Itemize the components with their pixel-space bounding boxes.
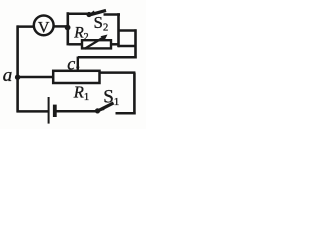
wire right rail lower: [133, 73, 136, 115]
wire left rail: [16, 25, 19, 112]
switch S1 pivot dot: [95, 108, 100, 113]
resistor R2 rheostat body: [82, 40, 111, 48]
wire bottom right horizontal: [116, 112, 136, 115]
rheostat R1 slider stem: [77, 57, 79, 70]
node a dot: [15, 75, 20, 80]
wire box left vertical: [67, 12, 70, 45]
rheostat R1 body: [53, 71, 99, 83]
node junction at box left: [65, 25, 71, 31]
wire R1 exit to right: [100, 71, 136, 74]
svg-text:c: c: [67, 53, 75, 73]
resistor R2 arrowhead: [101, 35, 108, 41]
switch S2 blade: [90, 10, 107, 15]
svg-text:a: a: [3, 65, 13, 86]
wire box exit upper: [118, 29, 137, 32]
svg-text:V: V: [38, 20, 50, 37]
switch S1 blade: [99, 103, 114, 111]
switch S2 blade arrow tail: [87, 11, 95, 16]
battery long plate: [48, 97, 50, 124]
voltmeter V: [34, 16, 54, 36]
wire battery to S1: [57, 110, 97, 113]
wire switch S2 left lead: [67, 13, 87, 16]
wire right rail upper: [134, 29, 137, 58]
wire voltmeter to junction: [54, 25, 69, 28]
wire top-left horizontal: [17, 25, 34, 28]
wire slider c to right rail: [78, 56, 137, 59]
wire R2 right lead: [111, 43, 119, 46]
wire node a to R1: [17, 76, 53, 79]
wire R2 left lead: [69, 43, 83, 46]
resistor R2 arrow: [85, 37, 105, 49]
switch S2 right lead: [104, 13, 121, 16]
wire bottom-left horizontal: [17, 110, 49, 113]
wire box right vertical: [117, 13, 120, 47]
switch S2 pivot dot: [86, 12, 91, 17]
battery short plate: [53, 105, 57, 117]
switch S1 blade arrow tail: [96, 107, 105, 113]
rheostat R1 slider arrowhead: [76, 67, 80, 71]
wire box exit lower: [118, 45, 137, 48]
